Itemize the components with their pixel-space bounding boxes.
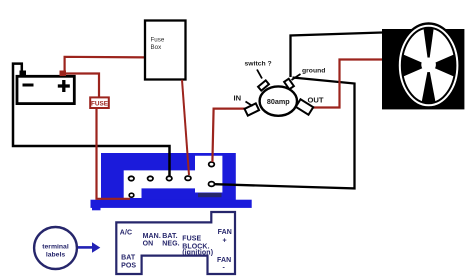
label FAN +	[218, 229, 232, 245]
wire relay ground to fan (black)	[291, 33, 383, 78]
terminal block TB1 (blue)	[91, 153, 252, 210]
svg-text:IN: IN	[234, 94, 242, 103]
svg-text:+: +	[223, 237, 227, 244]
fuse F1 (inline FUSE label)	[90, 97, 109, 108]
wire battery negative to terminal block (black)	[13, 64, 170, 176]
svg-text:(ignition): (ignition)	[182, 249, 213, 256]
wire relay OUT to fan (red)	[311, 60, 383, 108]
svg-text:FAN: FAN	[217, 257, 231, 264]
wire battery positive to fuse box (red)	[65, 57, 146, 71]
svg-text:BAT.: BAT.	[162, 233, 177, 240]
svg-text:MAN.: MAN.	[143, 233, 161, 240]
battery B1	[17, 71, 74, 104]
wire fuse to terminal block bottom-left (red)	[97, 109, 131, 199]
label ground	[292, 67, 326, 80]
svg-text:BAT: BAT	[121, 254, 136, 261]
wire fuse box to terminal block (red diagonal)	[182, 80, 189, 175]
wire ground loop: terminal 7 to relay ground (black)	[215, 78, 355, 189]
svg-text:OUT: OUT	[308, 96, 324, 105]
relay K1 80amp	[245, 79, 314, 116]
fan M1	[382, 24, 464, 110]
wire relay IN to terminal 6 (red)	[212, 109, 247, 162]
svg-text:FUSE: FUSE	[182, 235, 201, 242]
svg-text:FUSE: FUSE	[91, 100, 109, 107]
svg-text:switch ?: switch ?	[245, 61, 272, 68]
terminal 6 (relay IN feed)	[209, 162, 215, 167]
svg-text:terminal: terminal	[42, 244, 69, 251]
svg-text:POS: POS	[121, 262, 136, 269]
svg-text:labels: labels	[46, 251, 65, 258]
label MAN. ON	[143, 233, 161, 248]
svg-text:FAN: FAN	[218, 229, 232, 236]
callout arrow	[78, 246, 93, 249]
label BAT. NEG.	[162, 233, 180, 248]
node terminal-labels callout circle	[34, 227, 77, 269]
terminal 1	[129, 176, 134, 180]
svg-text:Box: Box	[151, 44, 163, 51]
svg-text:ground: ground	[302, 67, 325, 74]
label IN	[234, 94, 253, 107]
terminal labels legend box	[116, 212, 235, 274]
terminal 2	[148, 176, 153, 180]
fuse box FB1	[145, 21, 186, 80]
terminal 5 (battery positive feed)	[129, 193, 134, 197]
terminal 3	[167, 176, 172, 180]
terminal 4	[185, 176, 191, 180]
svg-text:NEG.: NEG.	[162, 240, 180, 247]
svg-text:ON: ON	[143, 240, 154, 247]
label switch ?	[245, 61, 272, 79]
label FUSE BLOCK. (ignition)	[182, 235, 213, 256]
svg-text:Fuse: Fuse	[151, 37, 165, 44]
label FAN -	[217, 257, 231, 272]
terminal 7 (ground)	[209, 182, 215, 187]
svg-text:A/C: A/C	[120, 230, 132, 237]
wire battery positive to inline fuse (red)	[66, 74, 99, 98]
label BAT POS	[121, 254, 136, 269]
svg-text:80amp: 80amp	[267, 97, 290, 106]
